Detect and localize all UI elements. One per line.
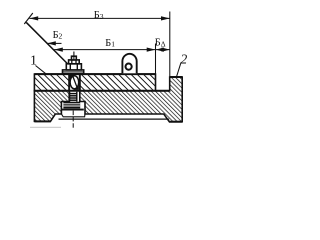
arrow Bdelta right [162,48,170,52]
slanted line across ellipse [72,75,77,88]
bolt clearance hole left wall in plate [68,74,70,91]
nut upper tier [69,60,80,64]
arrow B3 right [161,16,170,20]
eye circle in arch [126,64,132,70]
bolt shank ellipse in hole [70,76,79,89]
bolt centerline stub above [73,52,75,61]
plate 1 hatched body right of bolt hole [80,74,156,91]
arrow Bdelta left [156,48,164,52]
dimension line B2 [47,42,62,44]
svg-text:Б1: Б1 [105,38,115,49]
dimension line B1 and Bdelta [54,49,170,51]
left foot bottom edge [34,120,50,122]
oblique extension line to B1 arrow [27,22,75,71]
arrow B1 right at plate face [147,48,156,52]
svg-text:2: 2 [181,51,188,66]
bolt centerline dashed below [72,111,74,128]
arrow B1 left [54,48,63,52]
hex nut body [66,64,81,70]
arrow B2 [47,41,56,45]
joint line between plate 1 and base 2 [34,90,169,92]
bolt shank with thread rungs in base channel [69,92,71,102]
T-head of bolt [63,102,80,109]
oblique stroke at B3 left [24,13,33,24]
under-slot web line [61,114,85,117]
base and wall of angle bracket 2, right portion [80,77,182,122]
svg-text:Б3: Б3 [94,10,104,21]
stud end above nut [72,56,77,60]
extension line at plate right face [155,44,157,75]
dimension line B3 [29,17,169,19]
leader for part 1 [36,66,47,75]
extension line at wall left face [169,12,171,78]
svg-text:Б2: Б2 [53,30,63,41]
plate 1 hatched body left of bolt hole [34,74,69,91]
wall top edge [170,76,183,78]
dark wedge bottom-right of ellipse [74,84,79,90]
svg-text:БΔ: БΔ [155,38,166,49]
bolt clearance hole right wall in plate [79,74,81,91]
recess inner bottom line [59,118,170,120]
plate 1 top edge [34,73,155,75]
base of angle bracket 2, left portion with foot [34,91,69,122]
washer under nut [63,70,84,74]
arch lug on plate [122,54,136,73]
faint scan shadow bottom left [30,126,61,128]
oblique extension line to B2 arrow [25,22,68,65]
right foot bottom edge [169,121,182,123]
T-slot cavity floor thick bar [61,109,84,111]
leader for part 2 [177,63,182,77]
dark wedge top-left of ellipse [70,75,75,81]
arrow B3 left [29,16,38,20]
